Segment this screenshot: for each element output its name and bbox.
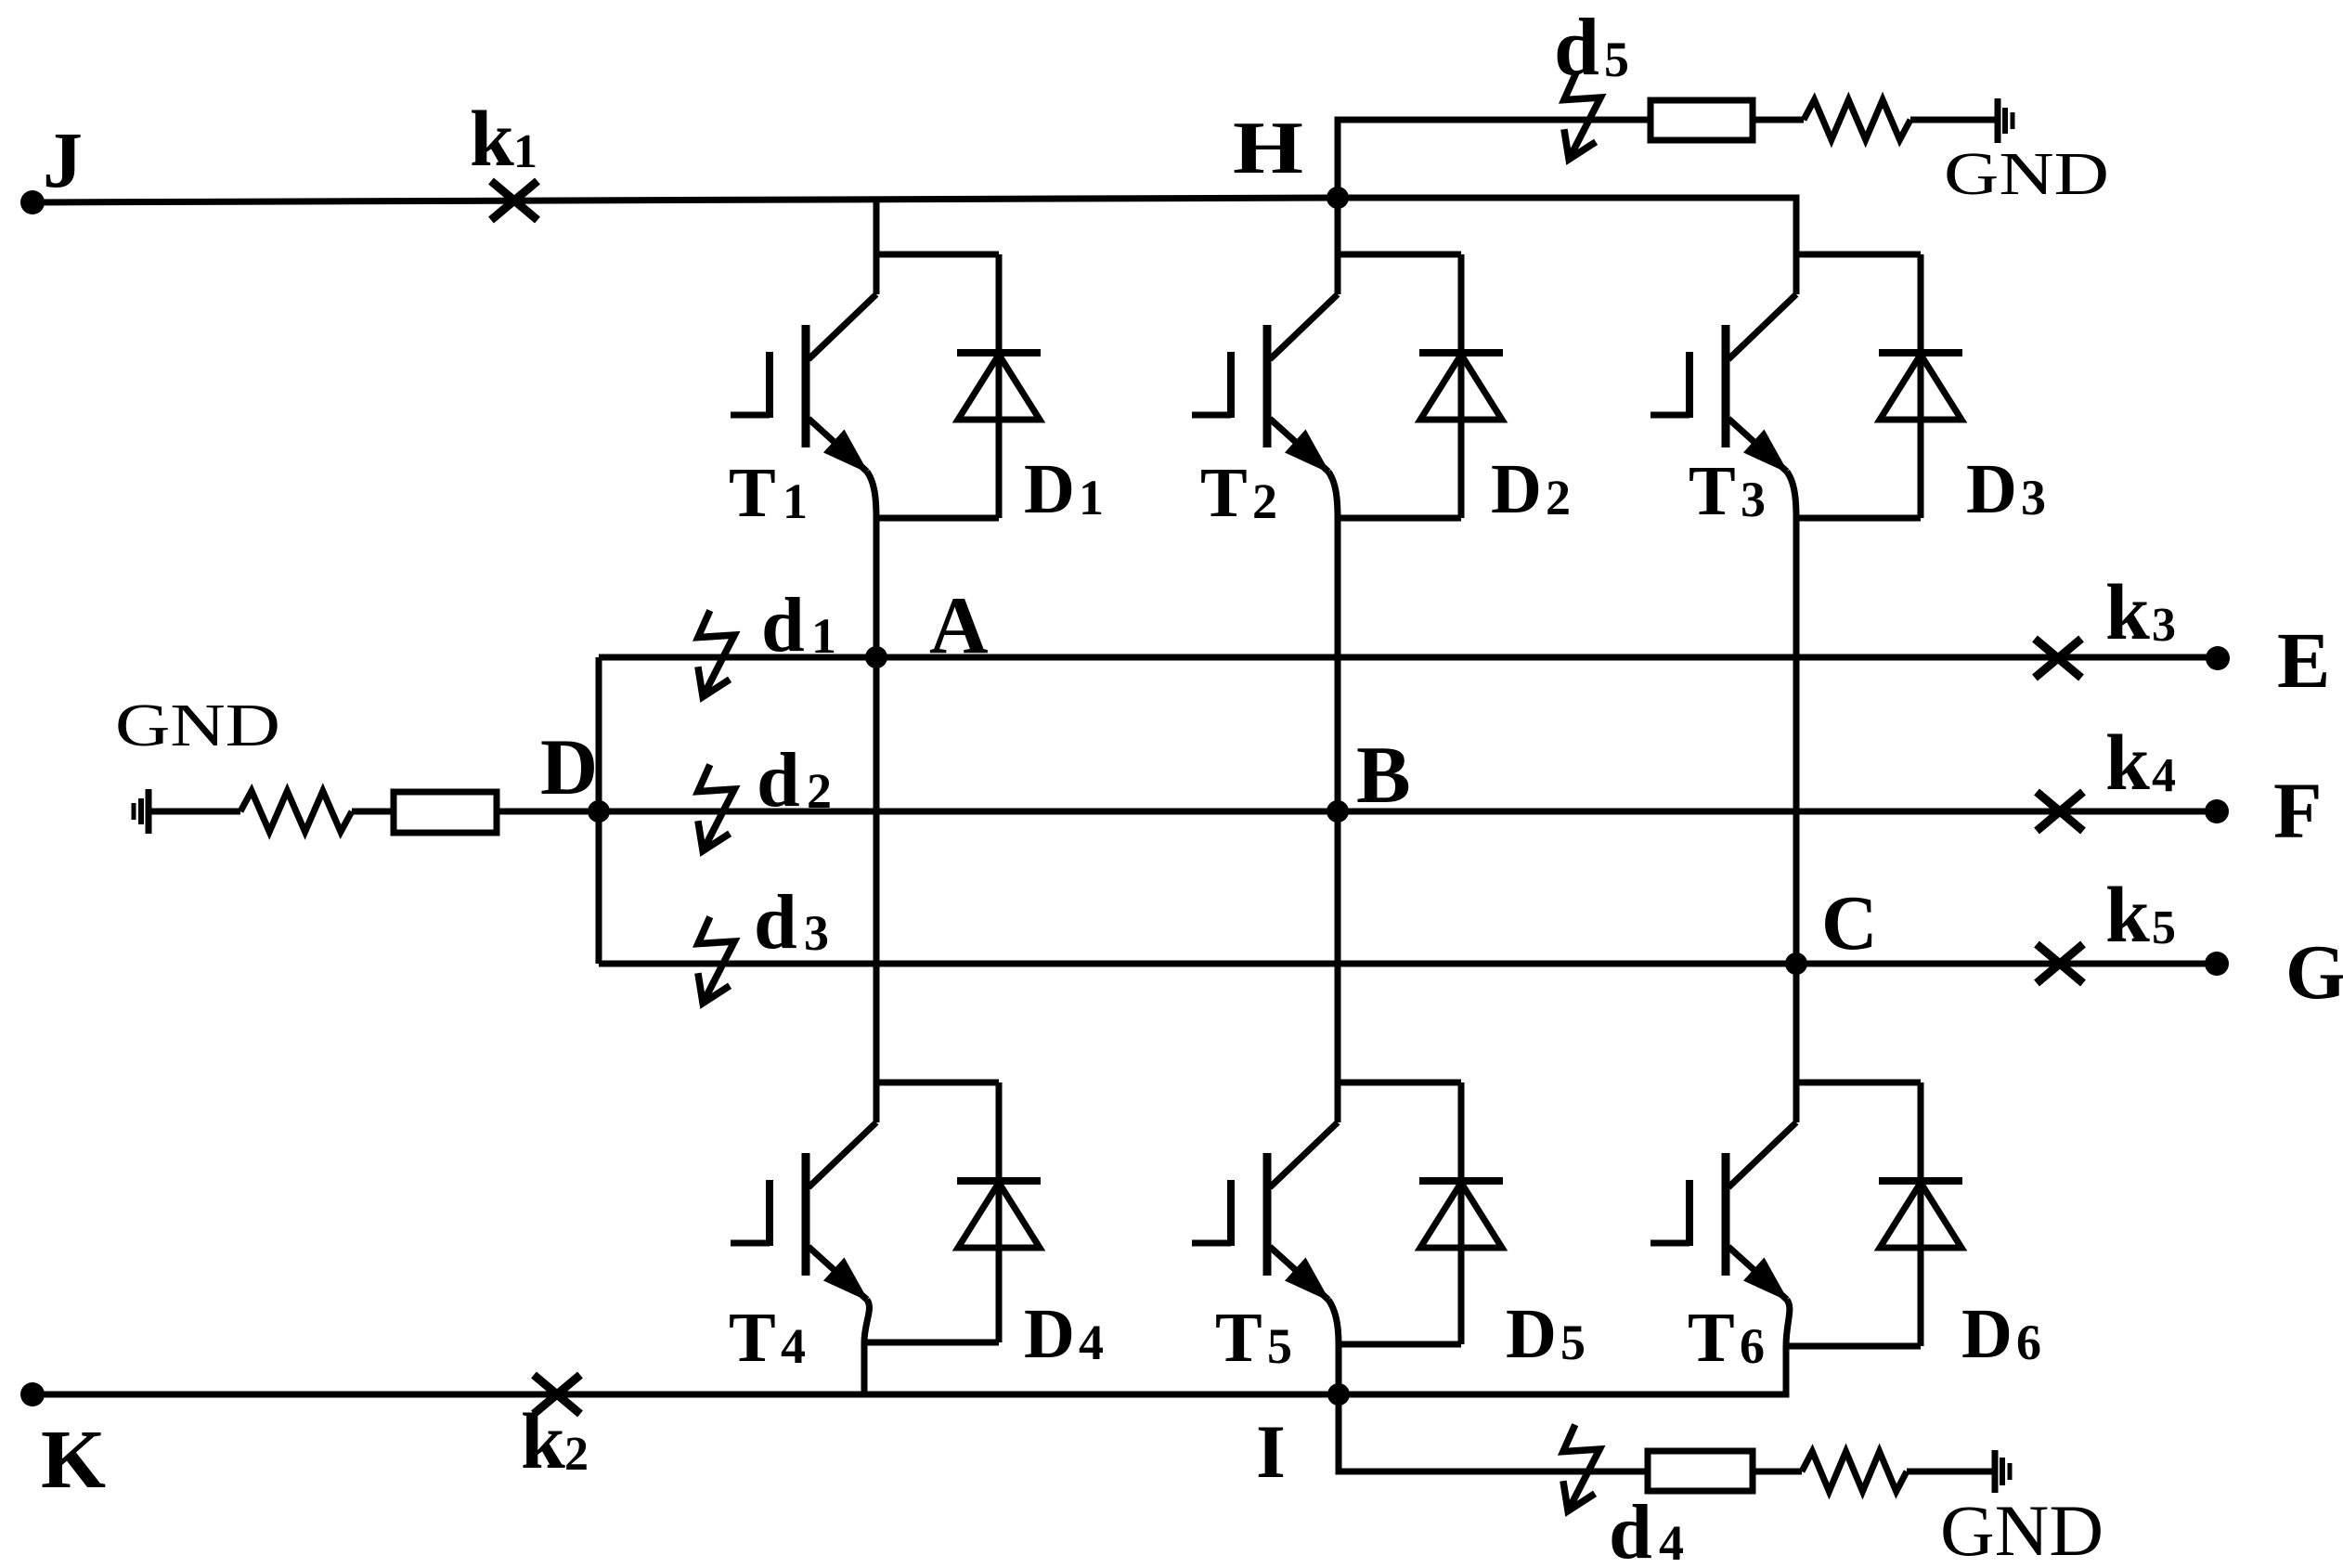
svg-text:E: E [2277,616,2330,705]
svg-text:3: 3 [2021,470,2046,525]
svg-text:k: k [2105,718,2150,807]
terminal K dot [20,1382,45,1406]
wire: H riser to ground branch [1338,120,1650,198]
transistor T2 (IGBT) [1192,254,1338,518]
switch k1 (cross on top rail) [491,181,537,220]
node B junction dot [1327,800,1349,823]
resistor R4a (box) in I ground branch [1648,1451,1753,1491]
wire: node B to T5 collector [1335,811,1341,1082]
svg-text:d: d [754,879,797,965]
wire: left GND to zigzag [149,809,240,815]
svg-text:5: 5 [1560,1315,1586,1370]
diode D3 [1879,254,1962,518]
svg-text:T: T [729,1299,776,1377]
terminal G dot [2205,952,2229,976]
svg-text:d: d [761,582,805,668]
resistor R5b (zigzag) in H ground branch [1804,100,1910,140]
wire: T3 emitter to node C [1793,518,1800,964]
svg-text:d: d [1554,3,1599,93]
node I junction dot [1327,1383,1350,1406]
wire: phase line (bracket) to G [599,961,2217,967]
switch k2 (cross on bottom rail) [534,1375,580,1414]
wire: bottom DC rail from K to T6 corner [32,1346,1786,1394]
svg-text:3: 3 [2152,599,2176,652]
wire: T4/D4 bottom connection [864,1340,999,1346]
svg-text:2: 2 [564,1428,589,1481]
svg-text:2: 2 [1252,473,1277,529]
resistor RDa (box) in D ground chain [394,792,497,833]
svg-text:5: 5 [1267,1318,1292,1374]
wire: D bracket vertical [596,657,602,964]
svg-text:1: 1 [783,473,808,529]
svg-text:K: K [41,1414,106,1506]
wire: T1/D1 top connection [876,252,999,258]
svg-text:T: T [1200,454,1248,532]
wire: top DC rail from J through k1 and H to T3 corner [32,198,1796,254]
svg-text:k: k [2105,870,2150,959]
svg-text:4: 4 [1079,1315,1104,1370]
svg-text:D: D [1966,450,2017,528]
terminal E dot [2206,646,2230,670]
transistor T3 (IGBT) [1650,254,1796,518]
wire: box to zigzag [1753,117,1804,123]
ground symbol (left) [134,789,149,834]
wire: I to ground branch [1339,1394,1648,1471]
diode D2 [1419,254,1503,518]
svg-text:1: 1 [811,608,836,664]
svg-text:D: D [540,722,598,811]
wire: T2 collector stub from H [1335,198,1341,254]
wire: T5/D5 top connection [1338,1080,1461,1086]
wire: zigzag to GND [1907,1469,1995,1475]
transistor T6 (IGBT) [1650,1082,1796,1346]
wire: T1/D1 bottom connection [876,515,999,522]
transistor T5 (IGBT) [1192,1082,1339,1344]
svg-text:D: D [1961,1295,2013,1373]
resistor R4b (zigzag) in I ground branch [1802,1452,1907,1492]
transistor T1 (IGBT) [731,254,876,518]
svg-text:D: D [1024,450,1075,528]
svg-text:D: D [1491,450,1542,528]
node H junction dot [1327,187,1349,209]
svg-text:T: T [729,454,776,532]
node C junction dot [1785,952,1807,975]
svg-text:G: G [2285,929,2343,1016]
svg-text:3: 3 [804,905,829,961]
fault marker d4 (lightning arrow) [1563,1425,1599,1511]
wire: T6/D6 top connection [1796,1080,1921,1086]
svg-text:1: 1 [1079,470,1104,525]
terminal J dot [20,190,45,214]
svg-text:1: 1 [513,125,537,178]
wire: zigzag to GND [1910,117,1998,123]
svg-text:6: 6 [1740,1318,1765,1374]
svg-text:3: 3 [1741,472,1766,527]
svg-text:5: 5 [2152,901,2176,954]
svg-text:GND: GND [115,692,280,759]
wire: node A to T4 collector [874,657,880,1082]
fault marker d5 (lightning arrow) [1564,73,1600,160]
transistor T4 (IGBT) [731,1082,876,1342]
svg-text:T: T [1689,452,1736,530]
svg-text:H: H [1233,108,1303,189]
switch k4 (cross on phase line F) [2037,792,2083,831]
switch k3 (cross on phase line E) [2035,639,2081,678]
svg-text:B: B [1356,731,1411,821]
wire: T5 emitter to node I [1336,1344,1342,1394]
diode D1 [957,254,1041,518]
svg-text:d: d [757,737,800,823]
svg-text:GND: GND [1940,1490,2104,1568]
wire: T2/D2 top connection [1338,252,1461,258]
fault marker d3 (lightning arrow) [698,917,734,1004]
wire: node C to T6 collector [1793,964,1800,1082]
svg-text:D: D [1024,1295,1075,1373]
wire: zigzag to box [352,809,394,815]
svg-text:4: 4 [2152,749,2176,802]
diode D6 [1879,1082,1962,1346]
svg-text:F: F [2273,766,2323,855]
svg-text:4: 4 [781,1318,806,1374]
svg-text:k: k [521,1396,565,1485]
node D junction dot [588,800,610,823]
svg-text:C: C [1821,880,1878,966]
svg-text:6: 6 [2016,1315,2041,1370]
wire: phase line A to E [599,654,2218,661]
svg-text:2: 2 [1546,470,1571,525]
svg-text:T: T [1688,1299,1735,1377]
svg-text:k: k [2105,567,2150,656]
fault marker d1 (lightning arrow) [698,611,734,697]
svg-text:d: d [1609,1489,1652,1568]
svg-text:D: D [1506,1295,1557,1373]
wire: T4 emitter to bottom rail [861,1342,868,1394]
wire: T3/D3 bottom connection [1796,515,1921,522]
resistor RDb (zigzag) in D ground chain [240,791,352,832]
wire: T2 emitter to node B [1335,518,1341,811]
svg-text:2: 2 [807,763,832,819]
ground symbol (top right) [1998,98,2013,143]
diode D5 [1419,1082,1503,1344]
svg-text:J: J [43,115,83,204]
svg-text:GND: GND [1944,140,2109,208]
diode D4 [957,1082,1041,1342]
wire: T5/D5 bottom connection [1339,1341,1461,1348]
node A junction dot [865,646,887,668]
svg-text:T: T [1215,1299,1262,1377]
wire: T1 emitter to node A [874,518,880,657]
wire: T2/D2 bottom connection [1338,515,1461,522]
fault marker d2 (lightning arrow) [698,765,734,851]
svg-text:A: A [929,581,989,671]
svg-text:4: 4 [1659,1515,1684,1568]
wire: T1 collector stub from rail [874,199,880,254]
wire: T4/D4 top connection [876,1080,999,1086]
switch k5 (cross on phase line G) [2037,944,2083,983]
terminal F dot [2205,799,2229,823]
wire: box to zigzag [1753,1469,1802,1475]
wire: T6/D6 bottom connection [1786,1343,1921,1350]
svg-text:I: I [1256,1409,1286,1494]
resistor R5a (box) in H ground branch [1650,100,1753,140]
svg-text:5: 5 [1604,32,1629,87]
ground symbol (bottom right) [1995,1450,2010,1493]
svg-text:k: k [470,94,514,183]
wire: T3/D3 top connection [1796,252,1921,258]
wire: phase line D to F [497,809,2217,815]
